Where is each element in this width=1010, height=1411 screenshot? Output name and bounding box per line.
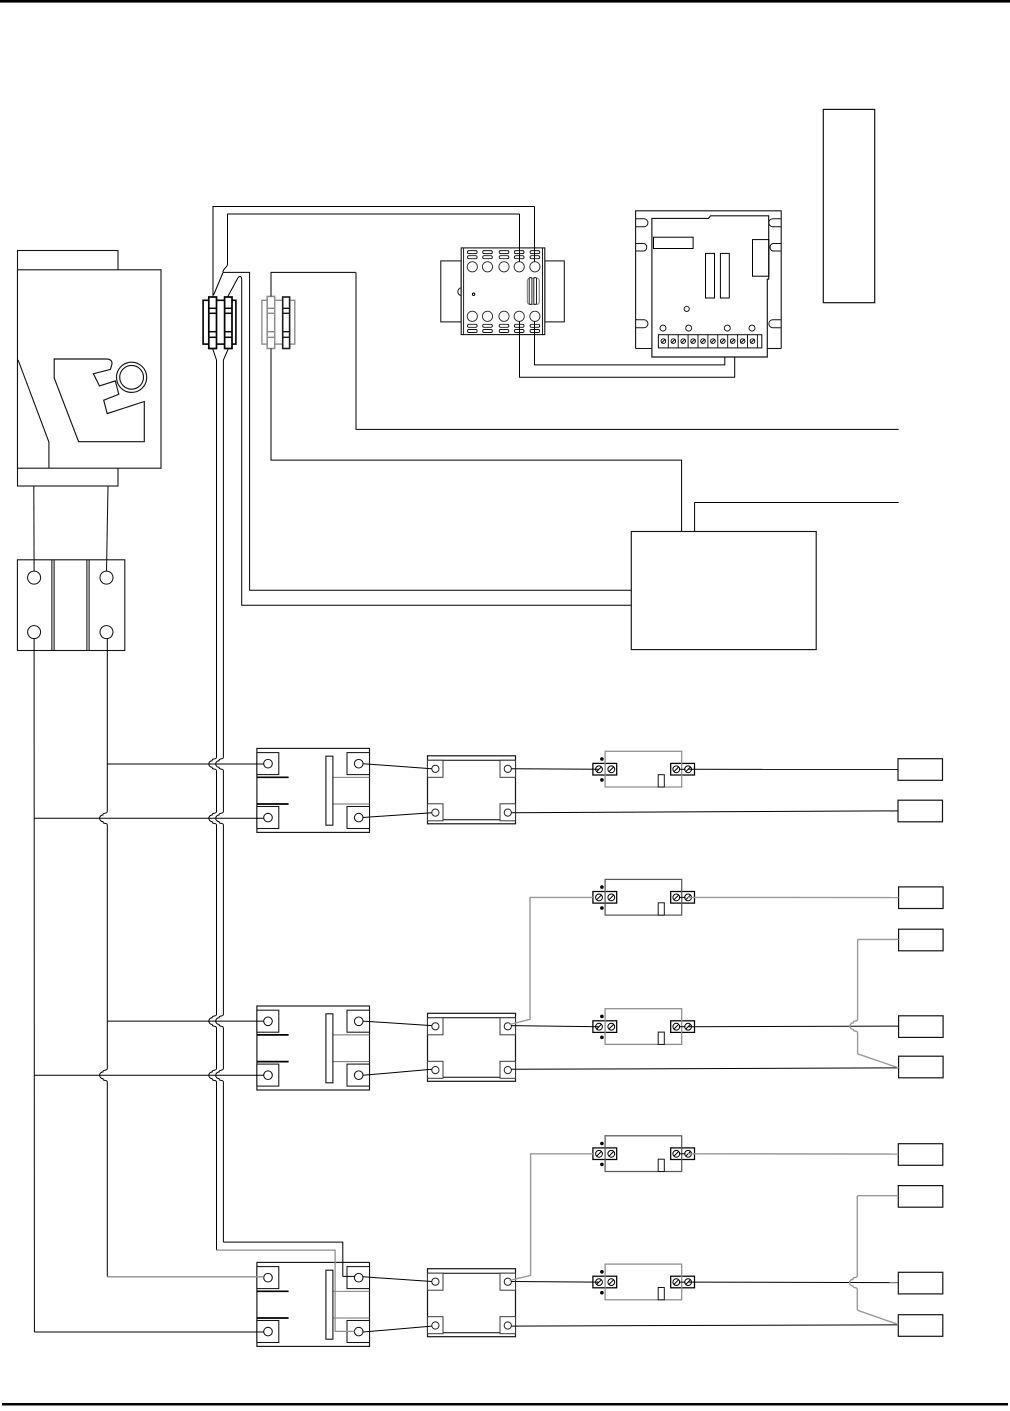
fuse F2a [267,296,275,348]
overload relay OL2b body [593,1009,695,1045]
key icon [54,359,147,442]
wire: fuse F2a bottom to box M top [271,349,682,532]
contactor K0 terminal circles top [467,262,540,272]
control board bracket [636,211,782,349]
overload relay OL2a body [593,879,695,915]
wire: relay K3 to contactor C3 bottom [363,1326,432,1332]
bracket slots right [769,219,781,328]
contactor K0 left edge notch [458,288,461,296]
load box B2b [899,929,944,951]
load box B3b [898,1186,943,1208]
fuse F1b [225,297,232,349]
wire: black bus into relay K3 top-right [223,1242,354,1276]
board terminal strip TB [658,335,761,348]
contactor K0 terminal slots bottom [468,324,540,332]
wire: bus to relay K1 coil top [107,763,263,765]
wire: mid bus to relay K3 upper [107,1276,263,1278]
wire: key switch to terminal block left [33,486,35,571]
board hole [684,306,689,311]
load box B1b [898,800,943,822]
wire: relay K1 to contactor C1 bottom [363,813,432,818]
contactor K0 terminal circles bottom [467,311,540,321]
load box B1a [898,759,943,781]
contactor C2 [428,1013,516,1081]
wire: K0 bottom (col4) to board terminal [520,321,735,377]
wire fan: load box 2 to load box 4 [858,938,899,940]
overload relay OL3b body [593,1264,695,1300]
wire: fuse F1a bottom slant to long vertical [213,349,217,360]
wire: contactor C2 to load box 4 [511,1068,898,1069]
key switch S1 body [18,251,162,487]
legend rectangle [823,109,874,302]
relay K1 [257,748,370,832]
wire: overload OL1 to load box 1 [688,768,898,770]
wire: relay K3 to contactor C3 top [363,1277,432,1282]
mid bus vertical from TB1 lower-right [100,639,108,1277]
contactor C3 [428,1269,516,1337]
load box B3a [898,1144,943,1166]
contactor C1 [428,756,516,824]
load box B2c [899,1016,944,1038]
wire B branch : to box M left upper [223,272,631,590]
wire: left bus to relay K3 lower [34,1331,263,1333]
wire: fuse F1b bottom slant to long vertical [223,349,228,360]
wire: contactor C1 to overload OL1 [511,768,599,771]
control board A1 outline [652,216,769,357]
fuse F2b [283,297,290,349]
terminal block TB1 [17,560,124,651]
wire: overload OL2b to load box 3 [688,1025,899,1028]
box M (junction box) [631,532,816,650]
wire B branch : diagonal into fuse F1a [214,273,223,296]
wire: gray bus into relay K3 bottom-right [217,1250,355,1331]
load box B3c [898,1272,943,1294]
wire: key switch to terminal block right [107,486,109,571]
long vertical bus R (black) from F1b to relay K3 upper [216,360,224,1242]
wire: bus to relay K1 coil bottom [34,817,264,819]
fuse block F2 [262,300,295,344]
key switch toggle diagonal [18,360,49,468]
left bus vertical from TB1 lower-left [33,639,35,1332]
relay K2 [257,1006,370,1090]
contactor K0 terminal slots top [468,251,540,259]
wire riser: contactor C3 to overload OL3a [510,1154,594,1281]
wire B (black feed) : to contactor K0 top [519,214,521,262]
fuse F1a [209,297,217,349]
load box B2d [899,1056,944,1078]
contactor K0 index dot [472,293,474,295]
wire: overload OL3b to load box 3 [688,1281,898,1284]
load box B3d [898,1315,943,1337]
wire: overload OL2a to load box 1 [688,896,899,898]
board capacitor 2 [720,253,729,298]
load box B2a [899,887,944,909]
wire: relay K1 to contactor C1 top [363,764,432,769]
contactor K0 side connector [527,278,539,305]
wire A (gray feed) : fuse F1a top to contactor K0 top [212,206,214,296]
wire: bus to relay K2 coil top [107,1020,263,1022]
wire: relay K2 to contactor C2 bottom [363,1069,432,1075]
wire: contactor C2 to overload OL2b [511,1026,599,1027]
wire fan: load box 2 to load box 4 [857,1195,898,1197]
overload relay OL3a body [593,1136,695,1172]
fuse block F1 [203,300,236,344]
wire: fuse F2a top loop to right page edge [271,272,356,296]
wire: box M top black to page edge [695,503,899,532]
board connector right [753,240,769,277]
wire: fuse F1b top to vertical riser 241.5 down to box M [228,276,631,605]
wire riser: contactor C2 to overload OL2a [510,897,593,1024]
contactor K0 body [441,248,565,335]
footer rule [2,1403,1008,1406]
wire: overload OL3a to load box 1 [688,1153,898,1155]
overload relay OL1 body [593,751,695,787]
wire: bus to relay K2 coil bottom [34,1074,263,1076]
bracket slots left [636,219,648,328]
wire: contactor C3 to load box 4 [511,1325,898,1326]
long vertical bus L (gray) from F1a to relay K3 lower [209,360,217,1250]
board capacitor 1 [706,253,715,298]
header bar [0,0,1010,3]
board test points [660,325,755,331]
wire: relay K2 to contactor C2 top [363,1021,432,1026]
board relay rect [654,237,694,248]
relay K3 [257,1262,370,1346]
wire: contactor C1 to load box 2 [511,811,898,813]
wire: K0 bottom (col5) to board terminal [535,321,725,365]
wire: contactor C3 to overload OL3b [511,1281,599,1284]
